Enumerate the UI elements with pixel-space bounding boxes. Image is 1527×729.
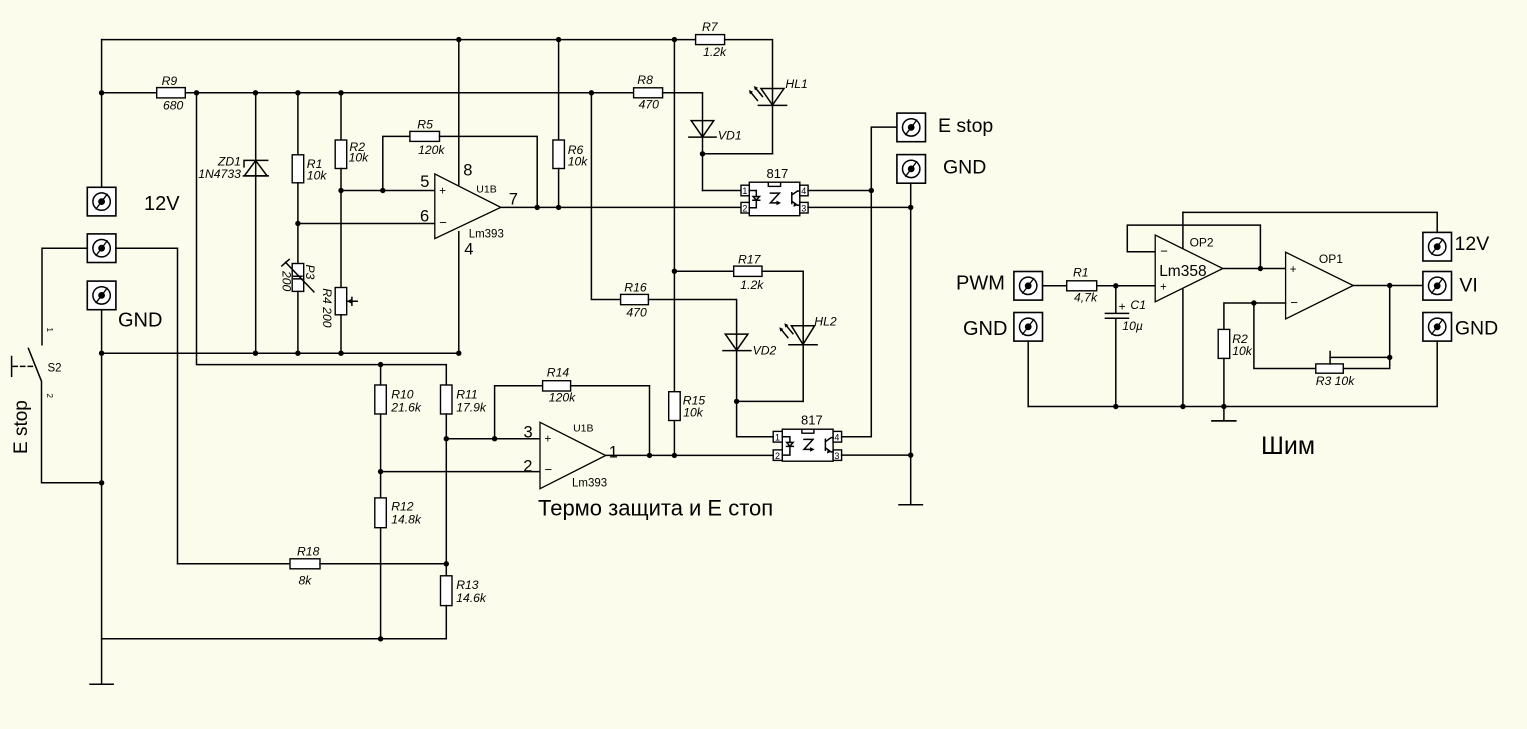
svg-text:Lm393: Lm393 (469, 228, 504, 240)
svg-text:+: + (1160, 281, 1167, 293)
svg-text:R1: R1 (1073, 266, 1089, 280)
svg-text:1: 1 (609, 443, 618, 461)
svg-text:3: 3 (834, 451, 839, 461)
svg-text:4: 4 (834, 433, 839, 443)
node rail-R2 (1221, 404, 1226, 409)
terminal VI (1423, 272, 1452, 301)
potentiometer P3 200 (279, 259, 317, 292)
node R2-pin5 (338, 188, 343, 193)
svg-text:E stop: E stop (938, 115, 993, 137)
node rail2-R1 (295, 90, 300, 95)
node rail-C1 (1113, 404, 1118, 409)
node rail2-left (99, 90, 104, 95)
svg-text:+: + (1290, 264, 1297, 276)
wire PWM to R1 (1043, 285, 1067, 287)
wire HL2 down and across (737, 400, 803, 402)
svg-text:−: − (439, 215, 447, 230)
svg-text:3: 3 (524, 423, 533, 441)
node R11-R18 (444, 561, 449, 566)
svg-text:8: 8 (463, 162, 472, 180)
wire R7 to HL1 (725, 40, 773, 154)
svg-text:−: − (1160, 244, 1168, 259)
wire 12V feed vertical behind OP2 (1182, 212, 1184, 406)
node R11-pin3 (444, 436, 449, 441)
node pin3-1 junction (908, 205, 913, 210)
svg-text:−: − (1290, 295, 1298, 310)
wire R3 right leg (1343, 286, 1389, 369)
node S2-join (99, 480, 104, 485)
node OP1out-feedback (1387, 283, 1392, 288)
svg-text:R16: R16 (624, 281, 647, 295)
svg-text:VD1: VD1 (718, 129, 742, 143)
resistor R10 (375, 385, 422, 415)
svg-text:OP2: OP2 (1190, 236, 1214, 250)
svg-text:120k: 120k (418, 143, 445, 157)
wire top rail (102, 39, 696, 41)
wire R2 bottom (1223, 358, 1225, 406)
svg-text:Термо защита и Е стоп: Термо защита и Е стоп (538, 496, 773, 521)
terminal 12V right (1423, 232, 1452, 261)
wire zener branch (255, 93, 257, 353)
wire left vertical lower (101, 353, 103, 684)
svg-text:1: 1 (742, 186, 747, 196)
wire opto1 pin4 (808, 190, 871, 192)
svg-text:4: 4 (801, 186, 806, 196)
svg-text:10k: 10k (568, 155, 589, 169)
node out2-R15 (672, 453, 677, 458)
node rail3-pin4 (456, 351, 461, 356)
node pin3-R14 (492, 436, 497, 441)
svg-text:R8: R8 (637, 73, 653, 87)
resistor R1 (292, 155, 327, 183)
svg-text:470: 470 (626, 305, 647, 319)
wire R17 branch (674, 270, 733, 272)
wire VD1 down to opto1 pin1 (703, 190, 741, 192)
svg-text:21.6k: 21.6k (390, 401, 422, 415)
svg-text:817: 817 (767, 166, 789, 181)
wire R6 bottom (558, 169, 560, 208)
svg-text:C1: C1 (1130, 298, 1146, 312)
node out-R5 (535, 205, 540, 210)
wire OP1 output (1353, 285, 1423, 287)
svg-text:1: 1 (775, 433, 780, 443)
wire pin6 input (298, 223, 435, 225)
node divider top R10 (378, 362, 383, 367)
node pin3-2 junction (908, 452, 913, 457)
node out-R6 (556, 205, 561, 210)
wire R5 right leg (440, 136, 538, 207)
svg-text:Lm393: Lm393 (572, 478, 607, 490)
wire opto2 pin3 to gnd vertical (842, 454, 911, 456)
svg-text:2: 2 (45, 394, 54, 399)
svg-text:R17: R17 (738, 253, 762, 267)
wire R14 left leg (495, 386, 543, 439)
wire pin3 input (446, 438, 540, 440)
wire long vertical x674 (673, 40, 675, 456)
svg-text:S2: S2 (48, 363, 62, 375)
wire rail2 right to VD1 (663, 93, 703, 191)
svg-text:R10: R10 (391, 388, 414, 402)
terminal E stop right (897, 113, 926, 142)
svg-text:1: 1 (45, 328, 54, 333)
svg-text:R11: R11 (456, 388, 477, 402)
node pin8-rail (456, 37, 461, 42)
wire R10 to R12 (380, 414, 382, 498)
resistor R7 (696, 20, 727, 59)
node R6-rail (556, 37, 561, 42)
node wiper-feedback (1387, 355, 1392, 360)
svg-text:+: + (439, 185, 446, 197)
node out2-R14 (647, 453, 652, 458)
svg-text:R12: R12 (391, 500, 414, 514)
svg-text:E stop: E stop (11, 400, 32, 454)
svg-text:+: + (1119, 300, 1126, 314)
wire R18 right (320, 563, 446, 565)
resistor R17 (734, 253, 765, 293)
svg-text:12V: 12V (144, 193, 180, 215)
svg-text:5: 5 (420, 173, 429, 191)
svg-text:GND: GND (118, 310, 162, 332)
svg-text:817: 817 (801, 413, 823, 428)
wire pin8 (458, 40, 460, 185)
wire R14 right leg (571, 386, 650, 456)
op-amp OP1 (1286, 252, 1354, 319)
node R10-pin2 (378, 469, 383, 474)
svg-text:HL1: HL1 (785, 77, 807, 91)
wire HL1 down and across (703, 153, 773, 155)
node rail4-R12 (378, 636, 383, 641)
node R1-pin6 (295, 221, 300, 226)
node rail2-x196 (194, 90, 199, 95)
node pin5-R5 (380, 188, 385, 193)
resistor R8 (634, 73, 663, 112)
svg-text:10k: 10k (307, 169, 328, 183)
svg-text:14.6k: 14.6k (456, 591, 487, 605)
resistor R15 (669, 392, 706, 421)
wire R3 left leg (1254, 303, 1316, 369)
svg-text:GND: GND (1455, 317, 1498, 339)
svg-text:120k: 120k (549, 391, 576, 405)
wire R3 wiper (1330, 356, 1390, 358)
svg-text:2: 2 (775, 451, 780, 461)
resistor R9 (157, 74, 186, 113)
svg-text:2: 2 (742, 203, 747, 213)
wire to opto2 pin1 (737, 401, 774, 436)
op-amp OP2 Lm358 (1155, 235, 1223, 302)
svg-text:GND: GND (943, 157, 986, 179)
optocoupler 817 #2 (773, 413, 841, 462)
wire R12 bottom (380, 528, 382, 639)
zener diode ZD1 1N4733 (198, 155, 268, 182)
wire x196 vertical to divider top (197, 93, 447, 385)
svg-text:14.8k: 14.8k (391, 513, 422, 527)
optocoupler 817 #1 (741, 166, 808, 216)
svg-text:10µ: 10µ (1122, 319, 1143, 333)
wire rail2 middle segment (185, 92, 633, 94)
wire R1 branch top (297, 93, 299, 155)
svg-text:2: 2 (523, 458, 532, 476)
wire GND vertical (910, 183, 912, 505)
wire bottom rail pwm (1028, 341, 1437, 406)
wire R16 to VD2 (648, 300, 736, 402)
wire R13 bottom to rail4 (102, 606, 447, 639)
resistor R18 (290, 545, 320, 588)
wire R1 to opamp (1097, 285, 1156, 287)
terminal GND right (897, 155, 926, 184)
svg-text:R7: R7 (702, 20, 719, 34)
svg-text:4,7k: 4,7k (1074, 291, 1098, 305)
node x674-rail1 (672, 37, 677, 42)
svg-text:+: + (545, 434, 552, 446)
node pin4s junction (869, 188, 874, 193)
svg-text:12V: 12V (1455, 233, 1490, 255)
svg-text:10k: 10k (1232, 344, 1253, 358)
wire R1 to P3 (297, 183, 299, 264)
wire terminal2 left to S2 (42, 248, 87, 345)
svg-text:Шим: Шим (1261, 432, 1315, 460)
terminal GND pwm left (1014, 313, 1043, 342)
resistor R6 (553, 140, 588, 169)
svg-text:U1B: U1B (476, 184, 496, 196)
wire terminal2 right vertical (116, 248, 178, 564)
svg-text:200: 200 (279, 270, 293, 292)
svg-text:HL2: HL2 (814, 315, 837, 329)
resistor R13 (441, 576, 487, 606)
op-amp U1B lower Lm393 (523, 422, 618, 489)
svg-text:R4 200: R4 200 (320, 288, 334, 328)
resistor R5 (410, 118, 446, 158)
wire gnd left down (1027, 341, 1029, 406)
svg-text:OP1: OP1 (1319, 252, 1343, 266)
wire OP1 minus input (1224, 303, 1286, 329)
node rail2-ZD1 (253, 90, 258, 95)
wire pin2 input (381, 471, 540, 473)
terminal GND left (87, 281, 116, 310)
svg-text:P3: P3 (303, 265, 317, 280)
wire R11 bottom (445, 414, 447, 576)
capacitor C1 10u (1105, 286, 1146, 407)
svg-text:VI: VI (1459, 275, 1477, 297)
wire pin7 output (501, 206, 741, 208)
node rail-12Vfeed (1180, 404, 1185, 409)
node OP2out-feedback (1258, 266, 1263, 271)
wire GND terminal down (101, 310, 103, 354)
wire opto2 pin4 to E stop (842, 127, 897, 437)
wire R16 vertical feed (591, 93, 620, 300)
terminal E stop switch feed (87, 234, 116, 263)
wire OP2 minus feedback (1127, 225, 1260, 268)
switch S2 (12, 328, 62, 399)
svg-text:17.9k: 17.9k (456, 401, 487, 415)
wire OP2 output (1223, 268, 1286, 270)
svg-text:470: 470 (639, 98, 660, 112)
svg-text:1.2k: 1.2k (740, 278, 764, 292)
svg-text:R5: R5 (417, 118, 433, 132)
node minus-R3 (1251, 300, 1256, 305)
LED HL1 (749, 77, 808, 105)
LED HL2 (779, 315, 837, 345)
svg-text:680: 680 (163, 99, 184, 113)
svg-text:3: 3 (801, 203, 806, 213)
svg-text:R18: R18 (297, 545, 320, 559)
node rail2-R16 (589, 90, 594, 95)
wire rail3 (102, 352, 459, 354)
node rail3-P3 (295, 351, 300, 356)
resistor R3 10k (1316, 352, 1356, 389)
svg-text:U1B: U1B (573, 423, 593, 435)
svg-text:R13: R13 (456, 578, 479, 592)
node R1-C1 (1113, 283, 1118, 288)
svg-text:−: − (545, 462, 553, 477)
svg-text:6: 6 (420, 207, 429, 225)
svg-text:10k: 10k (349, 151, 370, 165)
svg-text:10k: 10k (683, 406, 704, 420)
node VD1-HL1 (700, 151, 705, 156)
svg-text:PWM: PWM (956, 273, 1005, 295)
wire pin5 input (341, 190, 435, 192)
svg-text:Lm358: Lm358 (1159, 263, 1206, 280)
wire rail2 left segment (102, 92, 157, 94)
svg-text:1N4733: 1N4733 (198, 167, 241, 181)
resistor R16 (621, 281, 649, 320)
wire pin4 (458, 232, 460, 354)
terminal 12V left (87, 187, 116, 216)
svg-text:R3 10k: R3 10k (1316, 374, 1356, 388)
resistor R1 pwm (1067, 266, 1098, 305)
node rail2-R2 (338, 90, 343, 95)
wire left vertical 12V (101, 40, 103, 188)
svg-text:R14: R14 (547, 365, 570, 379)
node rail3-left (99, 351, 104, 356)
svg-text:8k: 8k (299, 574, 313, 588)
wire pin1 output (606, 454, 774, 456)
wire 12V top run (1183, 212, 1437, 232)
ground symbol left circuit (899, 504, 922, 506)
terminal PWM (1014, 272, 1043, 301)
svg-text:VD2: VD2 (753, 344, 777, 358)
svg-text:4: 4 (464, 240, 473, 258)
resistor R11 (441, 385, 487, 415)
wire R17 to HL2 (762, 271, 803, 401)
wire R2 to R4 (340, 169, 342, 288)
op-amp U1B upper Lm393 (420, 162, 518, 259)
diode VD1 (689, 121, 742, 143)
wire S2 bottom to left vertical (42, 382, 102, 483)
svg-text:7: 7 (509, 190, 518, 208)
svg-text:1.2k: 1.2k (703, 45, 727, 59)
wire R5 left leg (383, 136, 410, 190)
wire opto1 pin3 (808, 206, 911, 208)
resistor R14 (543, 365, 577, 404)
diode VD2 (723, 334, 777, 357)
wire P3 to rail3 (297, 291, 299, 353)
resistor R12 (375, 498, 422, 528)
wire R6 top (558, 40, 560, 140)
ground symbol pwm (1212, 407, 1236, 421)
resistor R4 200 (320, 288, 357, 328)
terminal GND pwm right (1423, 313, 1452, 342)
wire R2 branch top (340, 93, 342, 140)
node rail3-ZD1 (253, 351, 258, 356)
wire R18 left feed (178, 563, 291, 565)
resistor R2 pwm (1218, 329, 1253, 358)
wire R4 to rail3 (340, 315, 342, 353)
svg-text:GND: GND (963, 318, 1007, 340)
wire R10 top stub (380, 365, 382, 385)
node rail3-R4 (338, 351, 343, 356)
node x674-R17 (672, 269, 677, 274)
svg-text:R9: R9 (162, 74, 178, 88)
node VD2-HL2 (734, 399, 739, 404)
ground symbol bottom left (90, 683, 113, 685)
resistor R2 (335, 140, 369, 169)
